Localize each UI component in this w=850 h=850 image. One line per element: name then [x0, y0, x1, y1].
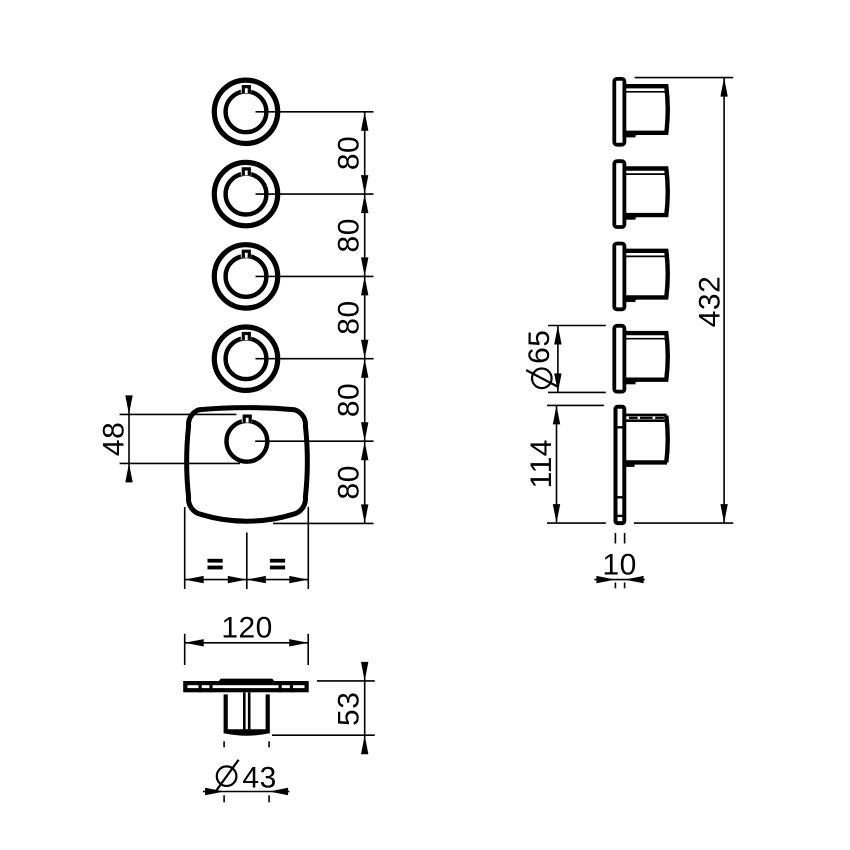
bottom view stem bottom arc — [226, 731, 268, 733]
knob 3 side view body — [624, 251, 668, 300]
diameter symbol for 65 — [526, 369, 557, 389]
dimension 120 line — [185, 642, 309, 644]
centerline knob 1 — [256, 111, 374, 113]
tall plate internal joints — [614, 427, 626, 516]
extension line plate bottom — [273, 522, 374, 524]
dimension d65 line — [557, 326, 559, 393]
svg-text:80: 80 — [333, 300, 366, 334]
dimension 114 extension lines — [547, 405, 733, 523]
dimension d65 arrowheads — [554, 326, 561, 393]
dimension d43 extension dashes — [224, 741, 269, 802]
dimension 48 extension lines — [120, 414, 240, 463]
dimension 53 line — [364, 667, 366, 751]
svg-text:80: 80 — [333, 218, 366, 252]
dimension d43 line — [203, 791, 290, 793]
dimension 120 arrowheads — [185, 639, 309, 646]
svg-text:65: 65 — [523, 330, 556, 364]
dimension 432 top extension line — [635, 77, 734, 79]
wall plate front view (rounded squircle) — [187, 408, 308, 522]
svg-text:53: 53 — [333, 692, 366, 726]
knob 1 side view body — [624, 86, 668, 135]
centerline knob 2 — [256, 193, 374, 195]
dimension chain 80x5 line — [364, 112, 366, 524]
centerline plate knob — [255, 440, 373, 442]
equal-split extension lines — [185, 507, 309, 589]
centerline knob 3 — [256, 275, 374, 277]
svg-text:80: 80 — [333, 465, 366, 499]
knob 3 side view escutcheon plate — [614, 244, 624, 310]
equal-split dimension line — [185, 579, 309, 581]
svg-text:114: 114 — [525, 439, 558, 488]
dimension 114 arrowheads — [553, 405, 560, 523]
svg-text:432: 432 — [694, 276, 727, 328]
knob 1 front view (outer ring, inner circle, index notch) — [214, 80, 277, 143]
knob 2 side view body — [624, 169, 668, 218]
dimension 10 line — [594, 579, 644, 581]
bottom view raised lip — [218, 679, 276, 683]
dimension 432 line — [723, 78, 725, 523]
knob 3 front view (outer ring, inner circle, index notch) — [214, 245, 277, 308]
knob 2 side view escutcheon plate — [614, 161, 624, 227]
dimension 114 line — [556, 405, 558, 523]
bottom view wall plate bar — [185, 683, 306, 690]
dimension 120 extension lines — [185, 634, 309, 665]
dimension d65 extension lines — [548, 326, 606, 393]
dimension 53 arrowheads — [361, 662, 368, 754]
bottom view valve stem body — [226, 694, 268, 731]
svg-text:120: 120 — [221, 611, 273, 644]
plate knob front view (circle with index notch) — [227, 413, 268, 461]
knob 1 side view escutcheon plate — [614, 79, 624, 145]
dimension 10 arrowheads — [596, 576, 643, 583]
knob 4 front view (outer ring, inner circle, index notch) — [214, 327, 277, 390]
bottom view plate segment dividers — [200, 681, 291, 692]
plate knob side view body — [624, 415, 668, 465]
equals symbol right — [270, 559, 285, 570]
knob 4 side view body — [624, 333, 668, 382]
centerline knob 4 — [256, 358, 374, 360]
dimension 53 extension lines — [272, 681, 375, 735]
knob 4 side view escutcheon plate — [614, 326, 624, 392]
svg-text:10: 10 — [602, 548, 636, 581]
dimension 10 extension dashes — [615, 533, 624, 588]
knob 2 front view (outer ring, inner circle, index notch) — [214, 162, 277, 225]
svg-text:80: 80 — [333, 383, 366, 417]
svg-text:80: 80 — [333, 136, 366, 170]
svg-text:43: 43 — [242, 762, 276, 795]
trim unit side view tall mounting plate — [616, 407, 625, 523]
dimension d43 arrowheads — [205, 788, 288, 795]
equal-split arrowheads — [185, 576, 309, 583]
diameter symbol for 43 — [215, 760, 239, 793]
dimension 48 line — [128, 396, 130, 483]
bottom view stem center slot — [244, 693, 249, 730]
dimension chain arrowheads — [361, 112, 368, 524]
dimension 48 arrowheads — [125, 395, 132, 482]
equals symbol left — [208, 559, 223, 570]
dimension 432 arrowheads — [720, 78, 727, 523]
svg-text:48: 48 — [98, 422, 131, 456]
